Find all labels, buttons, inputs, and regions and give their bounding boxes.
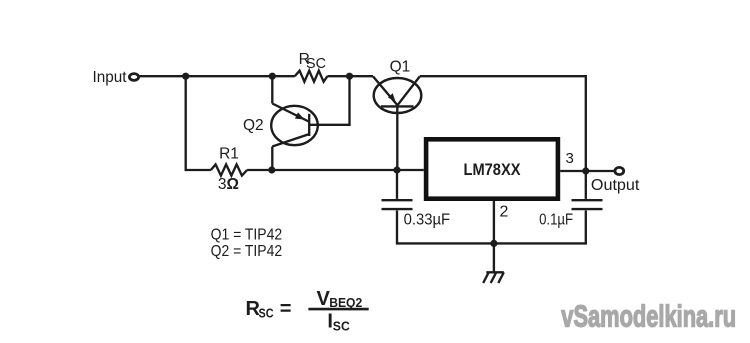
svg-text:LM78XX: LM78XX bbox=[464, 161, 521, 179]
svg-text:Output: Output bbox=[591, 177, 640, 194]
svg-text:Q2: Q2 bbox=[243, 117, 264, 134]
svg-text:vSamodelkina.ru: vSamodelkina.ru bbox=[561, 298, 736, 333]
svg-text:0.1µF: 0.1µF bbox=[539, 212, 573, 229]
svg-text:=: = bbox=[280, 298, 292, 320]
svg-text:R1: R1 bbox=[219, 145, 239, 162]
svg-text:2: 2 bbox=[500, 204, 509, 221]
svg-text:Input: Input bbox=[93, 69, 128, 86]
svg-text:0.33µF: 0.33µF bbox=[404, 212, 451, 229]
svg-text:SC: SC bbox=[333, 318, 351, 333]
svg-text:SC: SC bbox=[259, 306, 275, 321]
svg-text:Q1 = TIP42: Q1 = TIP42 bbox=[211, 227, 283, 244]
svg-text:3Ω: 3Ω bbox=[218, 176, 239, 193]
svg-text:3: 3 bbox=[566, 150, 574, 167]
svg-text:Q2 = TIP42: Q2 = TIP42 bbox=[211, 243, 283, 260]
svg-text:Q1: Q1 bbox=[390, 58, 411, 75]
svg-text:SC: SC bbox=[306, 56, 326, 72]
svg-text:BEQ2: BEQ2 bbox=[329, 295, 362, 310]
